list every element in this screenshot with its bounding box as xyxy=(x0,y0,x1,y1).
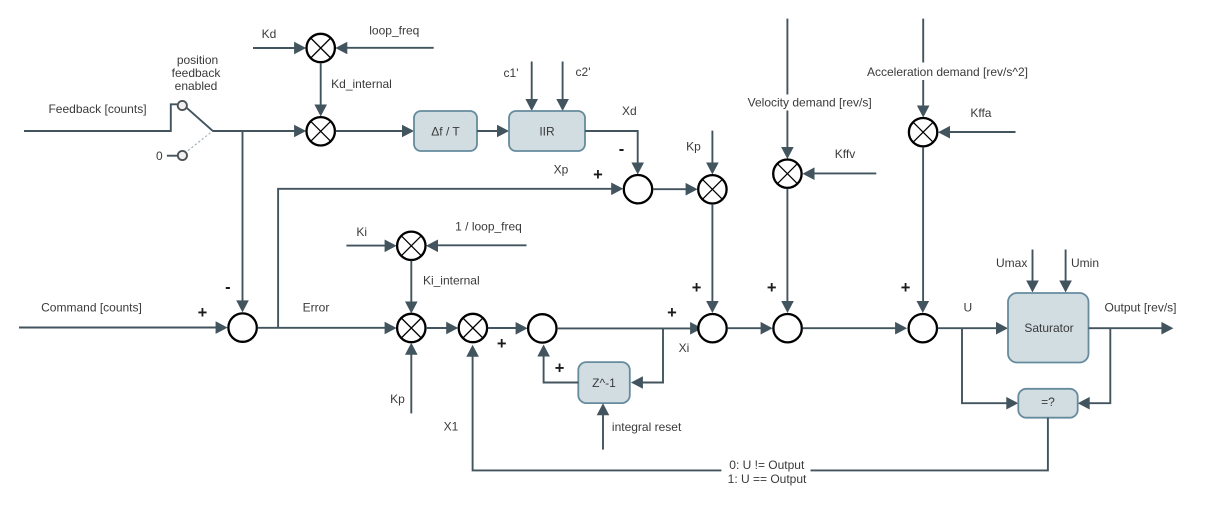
svg-text:Command [counts]: Command [counts] xyxy=(41,301,142,315)
block comparator =? xyxy=(1018,389,1077,418)
label plus at Xp sum xyxy=(593,166,603,184)
label Xd xyxy=(622,104,637,118)
svg-text:-: - xyxy=(619,141,625,159)
label Kd_internal xyxy=(331,77,392,91)
svg-text:integral reset: integral reset xyxy=(612,420,682,434)
summer S2 command minus feedback xyxy=(228,313,256,341)
switch SW1 bottom contact xyxy=(178,151,187,160)
label integral reset xyxy=(612,420,682,434)
wire M2 to delta-f box xyxy=(336,125,414,138)
label plus at integrator input xyxy=(497,335,507,353)
wire Kp input down xyxy=(706,131,719,175)
svg-text:+: + xyxy=(901,279,911,297)
summer S3 integrator xyxy=(528,314,556,342)
svg-text:-: - xyxy=(225,279,231,297)
svg-text:+: + xyxy=(692,279,702,297)
label Velocity demand [rev/s] xyxy=(746,95,874,111)
svg-text:Error: Error xyxy=(303,301,330,315)
wire c2' input xyxy=(556,62,569,112)
svg-text:Kp: Kp xyxy=(390,392,405,406)
label X1 xyxy=(444,420,459,434)
svg-text:Kffv: Kffv xyxy=(835,147,855,161)
wire S4 to S5 xyxy=(727,322,772,335)
svg-text:Kd_internal: Kd_internal xyxy=(331,77,392,91)
svg-text:Kp: Kp xyxy=(686,140,701,154)
svg-text:Ki_internal: Ki_internal xyxy=(423,274,480,288)
svg-text:0: 0 xyxy=(156,149,163,163)
svg-text:1: U == Output: 1: U == Output xyxy=(728,472,807,486)
svg-text:Feedback [counts]: Feedback [counts] xyxy=(48,102,146,116)
label Error xyxy=(303,301,330,315)
wire M6 to M8 xyxy=(426,322,458,335)
label Output [rev/s] xyxy=(1104,301,1176,315)
label minus at Xd sum xyxy=(619,141,625,159)
svg-text:1 / loop_freq: 1 / loop_freq xyxy=(455,220,522,234)
wire Kd input xyxy=(253,42,306,55)
wire M3 down to position sum xyxy=(706,204,719,313)
svg-text:+: + xyxy=(555,359,565,377)
svg-text:c1': c1' xyxy=(504,66,519,80)
label Command [counts] xyxy=(41,301,142,315)
wire switch to multiplier xyxy=(212,125,306,138)
wire Kffa input xyxy=(938,126,1016,139)
wire integrator out to Xi sum with branch xyxy=(557,322,702,335)
svg-text:c2': c2' xyxy=(576,65,591,79)
wire output branch down to comparator xyxy=(1078,328,1111,409)
svg-text:Ki: Ki xyxy=(356,225,367,239)
wire acceleration demand down xyxy=(917,19,930,118)
svg-text:X1: X1 xyxy=(444,420,459,434)
svg-text:feedback: feedback xyxy=(172,66,222,80)
wire S1 to Kp multiplier xyxy=(653,183,698,196)
svg-text:0: U != Output: 0: U != Output xyxy=(729,458,805,472)
block delta f / T xyxy=(414,111,477,151)
label 0: U != Output xyxy=(729,458,805,472)
label loop_freq xyxy=(369,24,419,38)
label c1' xyxy=(504,66,519,80)
svg-text:Z^-1: Z^-1 xyxy=(592,376,616,390)
block IIR xyxy=(509,111,585,151)
multiplier M1 Kd x loop_freq xyxy=(307,34,335,62)
wire c1' input xyxy=(525,62,538,112)
label position feedback enabled xyxy=(172,53,222,93)
wire Kd_internal xyxy=(314,63,327,117)
wire Xi branch down to Z^-1 xyxy=(631,328,663,388)
label plus left of position sum xyxy=(667,304,677,322)
summer S6 accel term xyxy=(909,314,937,342)
svg-text:Umax: Umax xyxy=(996,256,1027,270)
block Z^-1 xyxy=(578,362,630,403)
label Kp top xyxy=(686,140,701,154)
svg-text:Kffa: Kffa xyxy=(970,106,991,120)
wire comparator to X1 feedback xyxy=(466,345,1048,471)
svg-text:Umin: Umin xyxy=(1071,256,1099,270)
summer S5 velocity term xyxy=(773,314,801,342)
svg-text:+: + xyxy=(667,304,677,322)
svg-text:position: position xyxy=(177,53,218,67)
wire Ki input xyxy=(346,240,396,253)
wire feedback input xyxy=(24,104,177,131)
wire Z^-1 out to integrator sum xyxy=(537,345,578,383)
wire delta-f to IIR xyxy=(477,125,509,138)
label U xyxy=(963,301,972,315)
wire Kffv input xyxy=(803,167,877,180)
label Kd xyxy=(262,27,277,41)
svg-text:Δf / T: Δf / T xyxy=(431,125,460,139)
multiplier M6 error x Ki_internal xyxy=(397,314,425,342)
svg-text:+: + xyxy=(198,304,208,322)
label Umin xyxy=(1071,256,1099,270)
wire S5 to S6 xyxy=(803,322,908,335)
label plus above accel sum xyxy=(901,279,911,297)
label Acceleration demand [rev/s^2] xyxy=(864,63,1032,81)
wire U branch down to comparator xyxy=(962,328,1018,409)
label Kffa xyxy=(970,106,991,120)
label 1: U == Output xyxy=(728,472,807,486)
svg-text:Xp: Xp xyxy=(554,163,569,177)
wire S6 to saturator xyxy=(938,322,1008,335)
wire Kp input up xyxy=(405,343,418,414)
wire integral reset up xyxy=(597,403,610,449)
svg-text:=?: =? xyxy=(1041,395,1055,409)
label Kffv xyxy=(835,147,855,161)
summer S1 Xp minus Xd xyxy=(624,175,652,203)
wire Umax down xyxy=(1026,250,1039,293)
wire velocity demand down xyxy=(781,19,794,159)
label Xp xyxy=(554,163,569,177)
label c2' xyxy=(576,65,591,79)
svg-text:+: + xyxy=(497,335,507,353)
label minus at command sum xyxy=(225,279,231,297)
svg-text:enabled: enabled xyxy=(175,79,218,93)
multiplier M8 anti-windup X1 xyxy=(459,314,487,342)
wire saturator output xyxy=(1089,322,1174,335)
multiplier M7 Ki x 1/loop_freq xyxy=(397,232,425,260)
wire 1/loop_freq input xyxy=(426,240,527,253)
wire Xp branch from error line xyxy=(278,183,623,328)
multiplier M3 Kp xyxy=(698,175,726,203)
switch SW1 arm xyxy=(187,108,213,131)
label Ki xyxy=(356,225,367,239)
wire feedback branch down to command sum xyxy=(236,131,249,312)
wire Ki_internal down xyxy=(405,261,418,314)
svg-text:IIR: IIR xyxy=(539,125,555,139)
wire zero stub xyxy=(167,155,178,157)
svg-text:Saturator: Saturator xyxy=(1024,321,1073,335)
svg-text:U: U xyxy=(963,301,972,315)
label 1 / loop_freq xyxy=(455,220,522,234)
svg-text:Xi: Xi xyxy=(679,341,690,355)
label plus above velocity sum xyxy=(767,279,777,297)
svg-text:+: + xyxy=(767,279,777,297)
wire Umin down xyxy=(1059,250,1072,293)
label plus at integrator feedback xyxy=(555,359,565,377)
svg-text:+: + xyxy=(593,166,603,184)
label Umax xyxy=(996,256,1027,270)
label Feedback [counts] xyxy=(48,102,146,116)
label plus above position sum xyxy=(692,279,702,297)
svg-text:Output [rev/s]: Output [rev/s] xyxy=(1104,301,1176,315)
label Ki_internal xyxy=(423,274,480,288)
wire IIR to Xd sum xyxy=(585,131,644,175)
svg-text:Kd: Kd xyxy=(262,27,277,41)
switch SW1 dashed position xyxy=(188,132,212,151)
multiplier M2 feedback x Kd_internal xyxy=(307,117,335,145)
label Xi xyxy=(679,341,690,355)
label plus at command sum xyxy=(198,304,208,322)
svg-text:Velocity demand [rev/s]: Velocity demand [rev/s] xyxy=(748,96,872,110)
wire M4 down to velocity sum xyxy=(781,189,794,313)
wire M8 to integrator sum xyxy=(488,322,528,335)
svg-text:loop_freq: loop_freq xyxy=(369,24,419,38)
wire command input xyxy=(19,321,228,334)
switch SW1 top contact xyxy=(178,101,187,110)
block Saturator xyxy=(1008,293,1089,363)
wire loop_freq input xyxy=(335,42,433,55)
label Kp bottom xyxy=(390,392,405,406)
wire M5 down to accel sum xyxy=(917,147,930,313)
multiplier M5 Kffa xyxy=(909,118,937,146)
wire error to M6 xyxy=(258,322,397,335)
svg-text:Xd: Xd xyxy=(622,104,637,118)
svg-text:Acceleration demand [rev/s^2]: Acceleration demand [rev/s^2] xyxy=(867,65,1028,79)
summer S4 position term xyxy=(698,314,726,342)
label 0 xyxy=(156,149,163,163)
multiplier M4 Kffv xyxy=(773,160,801,188)
